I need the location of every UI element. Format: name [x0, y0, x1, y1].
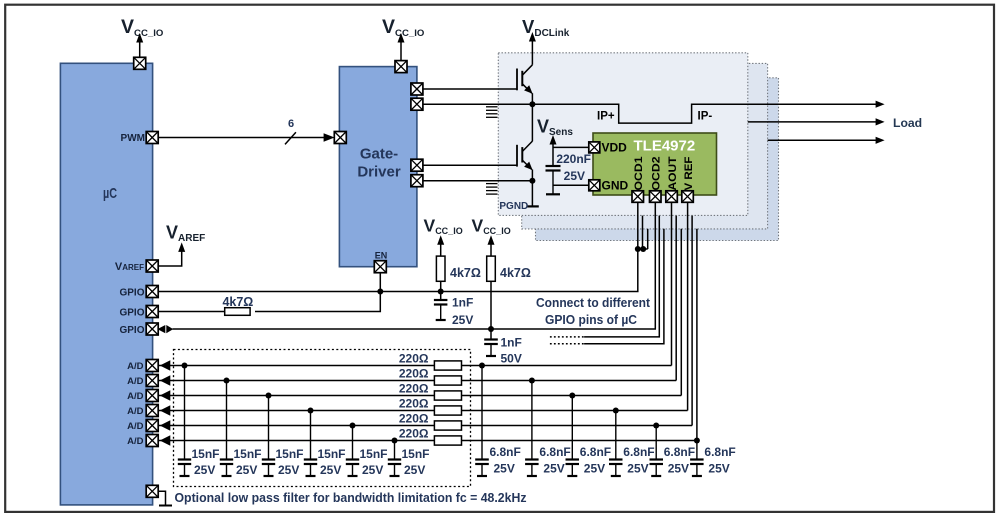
pin GPIO 1	[146, 286, 158, 298]
wire VREF chip 2	[691, 216, 693, 426]
wire AOUT front chip	[671, 202, 673, 366]
svg-text:220Ω: 220Ω	[399, 381, 429, 395]
resistor 220R channel 5	[434, 421, 461, 430]
wire A/D channel 3	[159, 395, 682, 397]
svg-text:GPIO: GPIO	[119, 325, 144, 336]
svg-text:6.8nF: 6.8nF	[623, 445, 654, 459]
wire GPIO3 to OCD2 front chip	[173, 202, 656, 330]
svg-text:A/D: A/D	[127, 436, 144, 447]
wire OCD1 front chip down	[637, 202, 639, 250]
wire VCC_IO to pullup resistor 2	[490, 244, 492, 256]
wire VCC_IO to gate driver top pin	[400, 41, 402, 61]
svg-text:4k7Ω: 4k7Ω	[500, 266, 531, 280]
wire gate driver to IGBT Q2 gate	[422, 164, 517, 166]
arrowhead into A/D pin 6	[160, 435, 171, 445]
svg-text:GPIO: GPIO	[119, 307, 144, 318]
bus width slash mark	[285, 132, 296, 144]
pin A/D 3	[146, 390, 158, 402]
svg-text:A/D: A/D	[127, 361, 144, 372]
arrowhead into A/D pin 1	[160, 360, 171, 370]
arrowhead VCC_IO uC	[136, 33, 143, 43]
half-bridge module layer 1 (front box)	[498, 53, 748, 216]
svg-text:GPIO: GPIO	[119, 287, 144, 298]
pin gate driver out 1	[411, 83, 423, 95]
svg-text:Load: Load	[893, 116, 922, 130]
bidirectional arrowheads GPIO3	[157, 325, 165, 333]
svg-text:220Ω: 220Ω	[399, 411, 429, 425]
wire gate driver to IGBT Q1 gate	[422, 88, 517, 90]
svg-text:A/D: A/D	[127, 391, 144, 402]
svg-text:25V: 25V	[543, 462, 564, 476]
wire pullup 2 down to GPIO3 net and cap	[490, 281, 492, 339]
pin VAREF	[146, 260, 158, 272]
capacitor 15nF 25V channel 4	[304, 411, 317, 477]
svg-text:25V: 25V	[584, 462, 605, 476]
arrowhead PWM into gate driver	[324, 133, 335, 141]
capacitor 6.8nF 25V channel 4	[609, 411, 623, 477]
wire VCC_IO to uC top pin	[139, 41, 141, 58]
svg-text:1nF: 1nF	[501, 336, 522, 350]
arrowhead VSens	[550, 135, 557, 145]
wire VDCLink rail to Q1	[531, 41, 533, 65]
arrowhead VDCLink	[529, 32, 536, 42]
capacitor 15nF 25V channel 2	[220, 381, 233, 477]
wire load phase 3	[768, 139, 876, 141]
wire GPIO1 to OCD1 net	[156, 249, 638, 292]
arrowhead into A/D pin 4	[160, 405, 171, 415]
svg-text:GND: GND	[602, 179, 629, 193]
chassis hatch symbol (upper emitter return)	[486, 107, 498, 118]
svg-text:220Ω: 220Ω	[399, 426, 429, 440]
pin gate driver out 4	[411, 175, 423, 187]
svg-text:25V: 25V	[708, 462, 729, 476]
resistor 220R channel 6	[434, 436, 461, 445]
svg-text:6.8nF: 6.8nF	[490, 445, 521, 459]
pin A/D 5	[146, 420, 158, 432]
pin A/D 6	[146, 435, 158, 447]
pin A/D 4	[146, 405, 158, 417]
arrowhead VCC_IO pullup 1	[437, 235, 444, 245]
capacitor 6.8nF 25V channel 6	[690, 441, 704, 477]
svg-text:50V: 50V	[501, 352, 522, 366]
wire OCD2 chip 3 stub	[584, 229, 664, 344]
svg-text:Connect to different: Connect to different	[536, 295, 651, 310]
pin OCD1	[632, 191, 644, 203]
capacitor 15nF 25V channel 6	[388, 441, 401, 477]
arrowhead load phase 3	[876, 137, 885, 144]
resistor 220R channel 2	[434, 376, 461, 385]
gate driver box	[339, 67, 417, 267]
svg-text:4k7Ω: 4k7Ω	[222, 295, 253, 309]
pin gate driver PWM in	[334, 132, 346, 144]
svg-text:15nF: 15nF	[402, 447, 430, 461]
wire gate driver to Q2 emitter node	[422, 180, 532, 182]
arrowhead load phase 2	[876, 118, 885, 125]
svg-text:25V: 25V	[452, 313, 473, 327]
capacitor 6.8nF 25V channel 2	[525, 381, 539, 477]
svg-text:V REF: V REF	[683, 156, 695, 190]
pin GPIO 3	[146, 323, 158, 335]
wire VCC_IO to pullup resistor 1	[440, 244, 442, 256]
svg-text:GPIO pins of µC: GPIO pins of µC	[545, 312, 638, 327]
svg-text:OCD2: OCD2	[651, 157, 663, 191]
resistor 220R channel 4	[434, 406, 461, 415]
svg-text:TLE4972: TLE4972	[634, 138, 696, 155]
svg-text:220nF: 220nF	[556, 152, 591, 166]
wire OCD1 chip 3 down	[647, 229, 649, 249]
wire IP+ IP- current rail to Load	[532, 104, 876, 123]
svg-text:PWM: PWM	[121, 133, 145, 144]
svg-text:15nF: 15nF	[192, 447, 220, 461]
wire OCD2 chip 3 dotted continuation	[550, 343, 584, 345]
svg-text:IP-: IP-	[698, 111, 713, 123]
pin OCD2	[650, 191, 662, 203]
wire Q1 emitter to phase node and Q2	[531, 93, 533, 141]
svg-text:AOUT: AOUT	[667, 156, 679, 190]
pin EN	[374, 261, 386, 273]
svg-text:A/D: A/D	[127, 406, 144, 417]
svg-text:VDD: VDD	[602, 141, 628, 155]
optional low pass filter dashed box	[174, 350, 471, 487]
wire cap to GND pin	[553, 184, 589, 186]
pin PWM	[146, 132, 158, 144]
svg-text:25V: 25V	[494, 462, 515, 476]
wire OCD1 chip 2 down	[642, 216, 644, 249]
svg-text:25V: 25V	[362, 463, 383, 477]
wire GPIO2 to series resistor	[156, 311, 228, 313]
svg-text:Driver: Driver	[357, 164, 401, 181]
capacitor 15nF 25V channel 1	[178, 366, 191, 477]
svg-text:25V: 25V	[564, 169, 585, 183]
svg-text:220Ω: 220Ω	[399, 396, 429, 410]
wire uC ground pin	[157, 491, 165, 505]
wire gate driver to Q1 emitter node	[422, 103, 532, 105]
wire A/D channel 1	[159, 365, 672, 367]
svg-text:25V: 25V	[278, 463, 299, 477]
wire PWM bus uC to gate driver	[156, 137, 325, 139]
half-bridge module layer 2 (middle box)	[522, 63, 768, 229]
wire VREF front chip	[687, 202, 689, 411]
wire VAREF pin to arrow	[156, 252, 181, 267]
capacitor 1nF 50V (OCD2 net)	[484, 340, 498, 357]
svg-text:Optional low pass filter for b: Optional low pass filter for bandwidth l…	[175, 490, 527, 505]
pin gate driver out 3	[411, 159, 423, 171]
wire load phase 2	[748, 121, 876, 123]
svg-text:VAREF: VAREF	[115, 261, 144, 273]
wire OCD1 tie	[638, 248, 648, 250]
svg-text:OCD1: OCD1	[633, 157, 645, 191]
current sensor IC TLE4972	[593, 133, 717, 195]
wire OCD2 chip 2 dotted continuation	[550, 336, 584, 338]
arrowhead into A/D pin 2	[160, 375, 171, 385]
svg-text:15nF: 15nF	[360, 447, 388, 461]
pin VDD	[589, 142, 600, 153]
svg-text:25V: 25V	[627, 462, 648, 476]
capacitor 220nF 25V	[546, 166, 561, 194]
svg-text:PGND: PGND	[499, 201, 528, 212]
transistor Q2 (low side IGBT)	[517, 141, 533, 170]
svg-text:220Ω: 220Ω	[399, 351, 429, 365]
wire A/D channel 6	[159, 440, 697, 442]
svg-text:6.8nF: 6.8nF	[704, 445, 735, 459]
arrowhead into A/D pin 3	[160, 390, 171, 400]
wire VREF chip 3	[696, 229, 698, 441]
pin A/D 1	[146, 360, 158, 372]
svg-text:25V: 25V	[668, 462, 689, 476]
svg-text:15nF: 15nF	[318, 447, 346, 461]
pin gate driver VCC top	[395, 61, 407, 73]
ground symbol uC	[159, 505, 172, 507]
svg-text:220Ω: 220Ω	[399, 366, 429, 380]
svg-text:15nF: 15nF	[276, 447, 304, 461]
capacitor 15nF 25V channel 5	[346, 426, 359, 477]
svg-text:25V: 25V	[194, 463, 215, 477]
wire Q2 emitter to PGND	[531, 170, 533, 207]
resistor 220R channel 3	[434, 391, 461, 400]
svg-text:6.8nF: 6.8nF	[664, 445, 695, 459]
half-bridge module layer 3 (back box)	[536, 78, 779, 241]
wire VSens arrow to cap	[552, 144, 554, 166]
ground PGND	[527, 205, 539, 207]
resistor 4k7 pullup 1	[436, 256, 445, 281]
chassis hatch symbol (lower emitter return)	[486, 184, 498, 195]
svg-text:6.8nF: 6.8nF	[580, 445, 611, 459]
resistor 220R channel 1	[434, 361, 461, 370]
svg-text:4k7Ω: 4k7Ω	[450, 266, 481, 280]
capacitor 1nF 25V (EN net)	[434, 300, 448, 320]
capacitor 6.8nF 25V channel 5	[650, 426, 664, 477]
wire AOUT chip 3	[680, 229, 682, 396]
svg-text:1nF: 1nF	[452, 296, 473, 310]
arrowhead VAREF	[178, 242, 185, 252]
pin A/D 2	[146, 375, 158, 387]
pin uC VCC top	[134, 57, 146, 69]
transistor Q1 (high side IGBT)	[517, 65, 533, 94]
pin GND	[589, 180, 600, 191]
svg-text:IP+: IP+	[597, 111, 615, 123]
pin GPIO 2	[146, 306, 158, 318]
wire A/D channel 5	[159, 425, 693, 427]
wire EN vertical to series resistor	[255, 272, 380, 311]
pin VREF	[682, 191, 694, 203]
arrowhead into A/D pin 5	[160, 420, 171, 430]
wire VSens to VDD pin	[553, 146, 589, 148]
svg-text:25V: 25V	[236, 463, 257, 477]
capacitor 6.8nF 25V channel 1	[475, 366, 489, 477]
svg-text:25V: 25V	[404, 463, 425, 477]
svg-text:Gate-: Gate-	[360, 146, 398, 163]
svg-text:µC: µC	[103, 185, 117, 202]
pin uC ground	[146, 485, 158, 497]
svg-text:A/D: A/D	[127, 421, 144, 432]
arrowhead load phase 1	[876, 101, 885, 108]
wire A/D channel 4	[159, 410, 688, 412]
pin gate driver out 2	[411, 98, 423, 110]
wire AOUT chip 2	[675, 216, 677, 381]
wire pullup 1 to GPIO1 net and cap	[440, 281, 442, 300]
svg-text:6: 6	[288, 118, 294, 130]
microcontroller U-uC box	[60, 63, 152, 505]
resistor 4k7 pullup 2	[487, 256, 496, 281]
wire OCD2 chip 2 stub	[584, 216, 659, 337]
wire A/D channel 2	[159, 380, 677, 382]
svg-text:25V: 25V	[320, 463, 341, 477]
svg-text:A/D: A/D	[127, 376, 144, 387]
capacitor 6.8nF 25V channel 3	[566, 396, 580, 477]
svg-text:6.8nF: 6.8nF	[539, 445, 570, 459]
capacitor 15nF 25V channel 3	[262, 396, 275, 477]
arrowhead VCC_IO pullup 2	[488, 235, 495, 245]
arrowhead VCC_IO gate driver	[398, 33, 405, 43]
pin AOUT	[666, 191, 678, 203]
resistor 4k7 series (GPIO2 to EN)	[225, 308, 250, 316]
svg-text:15nF: 15nF	[234, 447, 262, 461]
svg-text:EN: EN	[375, 251, 388, 261]
